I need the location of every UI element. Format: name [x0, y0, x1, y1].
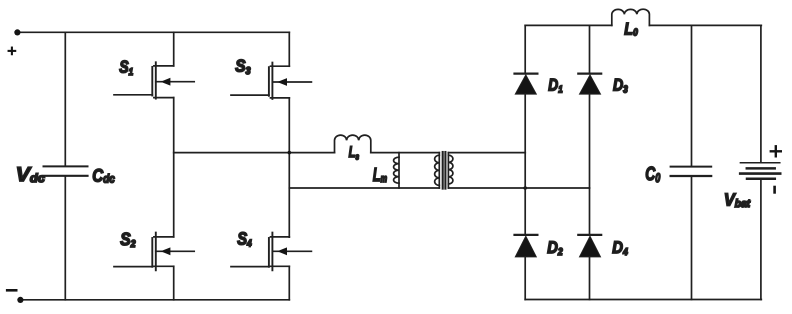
- wire bottom rail (input bridge): [20, 299, 289, 301]
- wire bridge output A (to Ls): [174, 152, 335, 154]
- diode D1: [515, 25, 538, 152]
- wire leg A lower: [173, 266, 175, 300]
- svg-text:C0: C0: [645, 164, 660, 185]
- wire top rail (input bridge): [17, 31, 289, 33]
- transformer T1 primary winding: [435, 153, 440, 188]
- node + input terminal: [14, 29, 20, 35]
- svg-text:D1: D1: [548, 75, 563, 95]
- svg-text:S3: S3: [235, 57, 251, 78]
- diode D4: [578, 188, 601, 300]
- svg-text:D2: D2: [547, 238, 563, 258]
- node - input terminal: [17, 297, 23, 303]
- svg-text:Vdc: Vdc: [16, 164, 45, 186]
- diode D2: [515, 153, 538, 300]
- svg-text:Cdc: Cdc: [92, 165, 115, 185]
- diode D3: [578, 25, 601, 188]
- transistor S4: [231, 233, 311, 271]
- node crossing dot rectifier left leg: [523, 186, 527, 190]
- svg-text:S2: S2: [120, 229, 136, 250]
- label + (input positive): [9, 48, 16, 55]
- wire leg A middle: [173, 98, 175, 237]
- svg-text:D3: D3: [613, 75, 628, 95]
- svg-text:S4: S4: [237, 228, 252, 249]
- battery Vbat: [740, 25, 780, 299]
- label + battery positive: [771, 146, 781, 156]
- inductor Lm magnetizing: [394, 153, 399, 188]
- wire rectifier top rail (right of L0): [649, 24, 761, 26]
- wire leg A upper: [173, 32, 175, 66]
- wire bridge output B (lower): [289, 187, 439, 189]
- transformer T1 core: [443, 152, 446, 189]
- transistor S1: [114, 62, 194, 98]
- wire secondary top to rectifier: [448, 152, 525, 154]
- transformer T1 secondary winding: [448, 153, 453, 188]
- svg-text:Vbat: Vbat: [724, 189, 751, 210]
- inductor L0: [612, 9, 650, 25]
- wire secondary bottom to rectifier: [448, 187, 589, 189]
- node crossing dot legB: [288, 151, 292, 155]
- svg-text:S1: S1: [119, 58, 133, 78]
- capacitor C0: [671, 25, 712, 299]
- transistor S3: [231, 63, 311, 99]
- svg-text:D4: D4: [612, 238, 628, 258]
- capacitor Cdc: [44, 32, 88, 300]
- svg-text:Lm: Lm: [373, 165, 388, 186]
- svg-text:Ls: Ls: [349, 144, 360, 162]
- wire leg B lower: [288, 266, 290, 300]
- svg-text:L0: L0: [624, 19, 638, 38]
- wire Ls to transformer: [371, 152, 440, 154]
- wire leg B middle: [288, 98, 290, 237]
- label i battery current tick: [773, 187, 776, 192]
- inductor Ls: [335, 135, 371, 153]
- wire leg B upper: [288, 32, 290, 66]
- wire rectifier top rail (left of L0): [525, 24, 612, 26]
- transistor S2: [114, 233, 194, 271]
- label - (input negative): [7, 289, 16, 292]
- wire rectifier bottom rail: [525, 299, 761, 301]
